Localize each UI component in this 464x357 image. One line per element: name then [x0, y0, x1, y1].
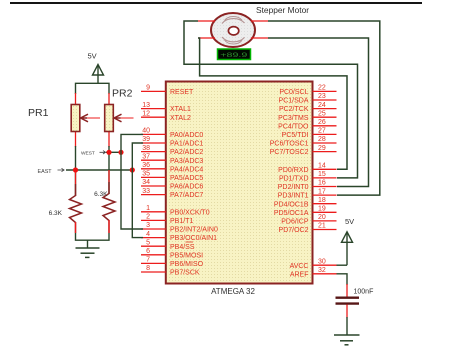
- power 5V symbol (left): [88, 52, 104, 84]
- svg-text:PA6/ADC6: PA6/ADC6: [170, 184, 203, 191]
- junction WEST to vertical wire: [118, 150, 123, 155]
- svg-text:36: 36: [142, 162, 150, 169]
- pin 24 PC2/TCK (right): [279, 102, 337, 113]
- pin 19 PD5/OC1A (right): [274, 206, 337, 217]
- svg-text:35: 35: [142, 171, 150, 178]
- svg-text:1: 1: [146, 205, 150, 212]
- pin 26 PC4/TDO (right): [278, 119, 336, 130]
- svg-text:29: 29: [318, 145, 326, 152]
- svg-text:100nF: 100nF: [354, 289, 374, 296]
- pin 5 PB4/SS (left): [141, 239, 195, 250]
- svg-text:PD7/OC2: PD7/OC2: [279, 227, 309, 234]
- wire motor upper-right terminal to PD3 (pin 17): [268, 21, 380, 195]
- svg-text:38: 38: [142, 145, 150, 152]
- junction on PR2 column (WEST): [106, 150, 111, 155]
- svg-text:PB5/MOSI: PB5/MOSI: [170, 252, 203, 259]
- junction EAST to vertical wire: [130, 167, 135, 172]
- svg-text:5V: 5V: [345, 217, 354, 226]
- resistor R1 6.3K: [70, 172, 82, 233]
- pin 17 PD3/INT1 (right): [278, 188, 337, 199]
- svg-text:PC1/SDA: PC1/SDA: [279, 98, 309, 105]
- svg-text:12: 12: [142, 110, 150, 117]
- svg-text:8: 8: [146, 265, 150, 272]
- svg-text:PB1/T1: PB1/T1: [170, 218, 193, 225]
- pin 14 PD0/RXD (right): [278, 163, 336, 174]
- svg-text:13: 13: [142, 102, 150, 109]
- svg-text:25: 25: [318, 110, 326, 117]
- capacitor C1 100nF: [336, 284, 360, 318]
- pin 33 PA7/ADC7 (left): [141, 188, 203, 199]
- svg-text:19: 19: [318, 206, 326, 213]
- wire motor lower-left terminal to PD0 (pin 14): [198, 38, 347, 169]
- svg-text:22: 22: [318, 85, 326, 92]
- pin 40 PA0/ADC0 (left): [141, 128, 203, 139]
- svg-text:20: 20: [318, 214, 326, 221]
- pin 7 PB6/MISO (left): [141, 257, 204, 268]
- wire EAST: PR1 column to vertical wire2: [66, 169, 132, 171]
- svg-text:PC6/TOSC1: PC6/TOSC1: [270, 141, 309, 148]
- svg-text:33: 33: [142, 188, 150, 195]
- svg-text:PD2/INT0: PD2/INT0: [278, 184, 309, 191]
- svg-text:PA5/ADC5: PA5/ADC5: [170, 175, 203, 182]
- svg-text:9: 9: [146, 85, 150, 92]
- svg-text:17: 17: [318, 188, 326, 195]
- svg-text:39: 39: [142, 136, 150, 143]
- svg-text:24: 24: [318, 102, 326, 109]
- ground (left): [76, 240, 100, 257]
- pin 38 PA2/ADC2 (left): [141, 145, 203, 156]
- svg-text:XTAL1: XTAL1: [170, 106, 191, 113]
- svg-text:PC3/TMS: PC3/TMS: [278, 115, 309, 122]
- svg-text:PC0/SCL: PC0/SCL: [279, 89, 308, 96]
- svg-text:26: 26: [318, 119, 326, 126]
- svg-text:PD5/OC1A: PD5/OC1A: [274, 210, 309, 217]
- svg-text:16: 16: [318, 180, 326, 187]
- svg-text:PB7/SCK: PB7/SCK: [170, 270, 200, 277]
- svg-text:5V: 5V: [88, 52, 97, 61]
- svg-text:PC2/TCK: PC2/TCK: [279, 106, 309, 113]
- svg-text:XTAL2: XTAL2: [170, 115, 191, 122]
- pin 23 PC1/SDA (right): [279, 93, 337, 104]
- pin 28 PC6/TOSC1 (right): [270, 136, 337, 147]
- svg-text:40: 40: [142, 128, 150, 135]
- svg-text:EAST: EAST: [38, 169, 53, 175]
- svg-text:PA4/ADC4: PA4/ADC4: [170, 166, 203, 173]
- svg-text:4: 4: [146, 231, 150, 238]
- svg-text:AVCC: AVCC: [290, 263, 309, 270]
- svg-text:7: 7: [146, 257, 150, 264]
- pin 6 PB5/MOSI (left): [141, 248, 203, 259]
- pin 22 PC0/SCL (right): [279, 85, 336, 96]
- svg-text:6.3K: 6.3K: [49, 210, 63, 217]
- pin 3 PB2/INT2/AIN0 (left): [141, 222, 218, 233]
- junction on PR1 column (EAST): [73, 167, 78, 172]
- svg-text:PD6/ICP: PD6/ICP: [281, 219, 309, 226]
- svg-text:AREF: AREF: [290, 271, 309, 278]
- svg-text:PD1/TXD: PD1/TXD: [279, 176, 309, 183]
- pin 30 AVCC (right): [290, 258, 337, 269]
- wire AREF (pin 32) to C1: [337, 274, 348, 285]
- svg-text:PA1/ADC1: PA1/ADC1: [170, 141, 203, 148]
- svg-text:34: 34: [142, 179, 150, 186]
- wire motor upper-left terminal to PD1 (pin 15): [184, 21, 358, 178]
- pin 21 PD7/OC2 (right): [279, 223, 337, 234]
- svg-text:PD4/OC1B: PD4/OC1B: [274, 201, 309, 208]
- svg-text:6: 6: [146, 248, 150, 255]
- potentiometer PR1: [71, 93, 100, 147]
- pin 29 PC7/TOSC2 (right): [270, 145, 337, 156]
- svg-text:RESET: RESET: [170, 89, 194, 96]
- pin 20 PD6/ICP (right): [281, 214, 336, 225]
- pin 4 PB3/OC0/AIN1 (left): [141, 231, 217, 242]
- pin 35 PA5/ADC5 (left): [141, 171, 203, 182]
- pin 34 PA6/ADC6 (left): [141, 179, 203, 190]
- pin 27 PC5/TDI (right): [282, 128, 337, 139]
- svg-text:PA7/ADC7: PA7/ADC7: [170, 192, 203, 199]
- svg-text:PD0/RXD: PD0/RXD: [278, 167, 308, 174]
- svg-text:21: 21: [318, 223, 326, 230]
- svg-text:37: 37: [142, 153, 150, 160]
- pin 37 PA3/ADC3 (left): [141, 153, 203, 164]
- wire PR1 bottom to R1: [75, 146, 77, 196]
- pin 18 PD4/OC1B (right): [274, 197, 337, 208]
- ground (right, C1): [334, 335, 360, 345]
- svg-text:PR2: PR2: [112, 88, 133, 100]
- microcontroller U1 ATMEGA32 body: [166, 82, 313, 284]
- wire C1 to ground: [346, 317, 348, 335]
- wire motor lower-right terminal to PD2 (pin 16): [268, 38, 369, 187]
- svg-text:PC7/TOSC2: PC7/TOSC2: [270, 149, 309, 156]
- svg-text:+89.9: +89.9: [220, 52, 248, 59]
- pin 2 PB1/T1 (left): [141, 214, 193, 225]
- svg-text:PA0/ADC0: PA0/ADC0: [170, 132, 203, 139]
- svg-text:PA2/ADC2: PA2/ADC2: [170, 149, 203, 156]
- resistor R2 6.3K: [103, 170, 115, 233]
- wire 5V rail to PR1/PR2 tops: [76, 83, 110, 94]
- wire node WEST vertical: PA0(40) to PB2(3): [121, 134, 143, 229]
- svg-text:PB6/MISO: PB6/MISO: [170, 261, 204, 268]
- svg-text:6.3K: 6.3K: [94, 191, 108, 198]
- svg-text:15: 15: [318, 171, 326, 178]
- svg-text:PD3/INT1: PD3/INT1: [278, 193, 309, 200]
- svg-text:2: 2: [146, 214, 150, 221]
- wire PR2 bottom to R2: [108, 146, 110, 194]
- svg-text:PB0/XCK/T0: PB0/XCK/T0: [170, 209, 210, 216]
- wire 5V to AVCC (pin 30): [337, 264, 348, 266]
- pin 16 PD2/INT0 (right): [278, 180, 337, 191]
- svg-text:PB2/INT2/AIN0: PB2/INT2/AIN0: [170, 227, 218, 234]
- svg-text:ATMEGA 32: ATMEGA 32: [211, 287, 255, 296]
- pin 39 PA1/ADC1 (left): [141, 136, 203, 147]
- svg-text:PA3/ADC3: PA3/ADC3: [170, 158, 203, 165]
- stepper motor M1: [198, 13, 268, 47]
- svg-text:32: 32: [318, 267, 326, 274]
- svg-text:28: 28: [318, 136, 326, 143]
- wire WEST: PR2 column to node: [106, 151, 121, 153]
- pin 36 PA4/ADC4 (left): [141, 162, 203, 173]
- svg-text:3: 3: [146, 222, 150, 229]
- wire node EAST vertical: PA1(39) to PB3(4): [132, 143, 143, 238]
- pin 13 XTAL1 (left): [141, 102, 191, 113]
- svg-text:PB4/SS: PB4/SS: [170, 244, 195, 251]
- motor position display: [218, 49, 251, 60]
- svg-text:23: 23: [318, 93, 326, 100]
- pin 25 PC3/TMS (right): [278, 110, 336, 121]
- pin 8 PB7/SCK (left): [141, 265, 200, 276]
- pin 32 AREF (right): [290, 267, 337, 278]
- svg-text:5: 5: [146, 239, 150, 246]
- pin 15 PD1/TXD (right): [279, 171, 337, 182]
- svg-text:PC4/TDO: PC4/TDO: [278, 123, 309, 130]
- svg-text:PC5/TDI: PC5/TDI: [282, 132, 309, 139]
- potentiometer PR2: [105, 93, 134, 147]
- svg-text:30: 30: [318, 258, 326, 265]
- svg-text:PB3/OC0/AIN1: PB3/OC0/AIN1: [170, 235, 217, 242]
- svg-text:PR1: PR1: [28, 107, 49, 119]
- svg-text:WEST: WEST: [81, 150, 95, 156]
- power 5V symbol (right, AVCC): [342, 217, 355, 265]
- wire R1/R2 bottoms to ground: [76, 233, 110, 240]
- pin 9 RESET (left): [141, 85, 194, 96]
- svg-text:27: 27: [318, 128, 326, 135]
- pin 1 PB0/XCK/T0 (left): [141, 205, 210, 216]
- svg-text:Stepper Motor: Stepper Motor: [256, 5, 309, 15]
- svg-text:14: 14: [318, 163, 326, 170]
- pin 12 XTAL2 (left): [141, 110, 191, 121]
- svg-text:18: 18: [318, 197, 326, 204]
